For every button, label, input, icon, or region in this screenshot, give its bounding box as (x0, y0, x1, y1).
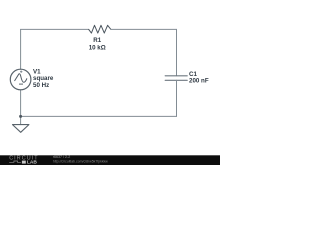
svg-text:LAB: LAB (27, 160, 38, 165)
footer logo LAB box (22, 161, 26, 164)
svg-text:square: square (33, 75, 54, 82)
resistor R1 (89, 25, 111, 33)
wire right vertical bottom (176, 80, 178, 116)
ground (13, 125, 29, 133)
wire bottom horizontal (21, 115, 177, 117)
footer bar (0, 155, 220, 165)
wire top horizontal right (111, 28, 177, 30)
V1 waveform glyph (15, 74, 27, 83)
V1 plus sign (20, 71, 22, 73)
svg-text:200 nF: 200 nF (189, 78, 209, 85)
svg-text:50 Hz: 50 Hz (33, 82, 49, 89)
wire top-left vertical (20, 29, 22, 69)
wire top horizontal left (21, 28, 89, 30)
wire right vertical top (176, 29, 178, 75)
junction node (19, 115, 22, 118)
wire left vertical bottom (20, 90, 22, 125)
V1 minus sign (19, 83, 23, 85)
svg-text:r6637 / 2-2: r6637 / 2-2 (53, 155, 71, 159)
svg-text:http://circuitlab.com/c/8rw5k7: http://circuitlab.com/c/8rw5k7fpkkkw (53, 160, 108, 164)
voltage source V1 (10, 69, 31, 90)
svg-text:10 kΩ: 10 kΩ (89, 44, 106, 51)
svg-text:R1: R1 (93, 37, 101, 44)
capacitor C1 (165, 76, 187, 81)
footer logo waveform (9, 161, 21, 162)
